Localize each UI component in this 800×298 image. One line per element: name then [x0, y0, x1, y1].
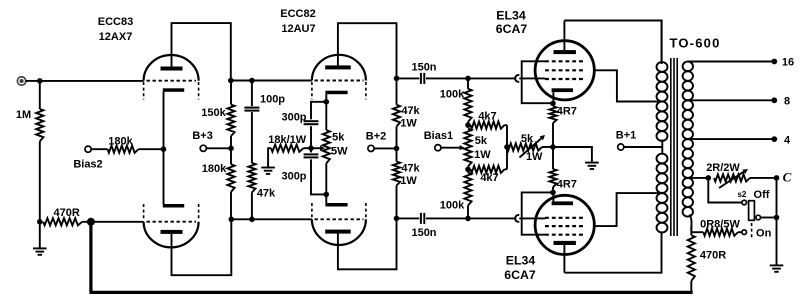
label 5k 5W: [331, 131, 348, 157]
transformer core: [671, 58, 677, 236]
wire g3 top tie: [522, 61, 553, 103]
wire C node down: [776, 178, 778, 266]
resistor 4R7 bottom: [549, 147, 556, 192]
wire B+1 to OPT CT: [624, 146, 663, 148]
terminal Bias1: [435, 145, 441, 151]
wire feedback run (thick): [90, 222, 693, 293]
resistor 5k/1W pot: [507, 143, 553, 150]
label 100k upper: [440, 89, 465, 101]
svg-text:5k: 5k: [521, 133, 534, 145]
node tap 4: [771, 136, 777, 142]
resistor 150k: [227, 81, 234, 149]
wire cathode ground: [553, 147, 592, 163]
tube ECC83 triode B envelope: [144, 222, 199, 248]
capacitor 150n upper: [397, 73, 469, 84]
svg-text:4R7: 4R7: [557, 105, 577, 117]
tube EL34 top plate lead: [563, 21, 565, 51]
label 470R feedback: [700, 249, 726, 261]
node 300p midpoint: [308, 145, 314, 151]
svg-text:8: 8: [784, 96, 790, 108]
svg-text:6CA7: 6CA7: [496, 22, 528, 36]
label 5k pot: [521, 133, 534, 145]
tube EL34 top g3: [545, 60, 584, 62]
label B+3: [192, 130, 213, 142]
label 18k/1W: [268, 134, 307, 146]
tube ECC83 triode B grid: [147, 221, 197, 223]
label 0R8/5W: [700, 218, 740, 230]
resistor 1M: [36, 81, 43, 222]
svg-text:180k: 180k: [202, 163, 227, 175]
resistor 47k/1W upper: [393, 78, 400, 148]
svg-text:B+3: B+3: [192, 130, 213, 142]
resistor 2R/2W: [714, 174, 777, 181]
node bias chain lower: [465, 167, 471, 173]
node damping tap: [706, 175, 712, 181]
wire 300p to cathode B: [311, 159, 326, 194]
wire g1 top with hop: [468, 75, 545, 82]
tube ECC82 triode A envelope: [312, 55, 366, 81]
svg-text:Bias1: Bias1: [424, 130, 453, 142]
resistor 470R feedback: [688, 235, 695, 291]
transformer primary lower: [657, 154, 668, 234]
tube ECC82 triode A plate: [325, 65, 351, 69]
resistor 180k bias2: [91, 146, 163, 153]
node tap 16: [771, 59, 777, 65]
node bias chain upper: [465, 122, 471, 128]
tube ECC82 triode B grid: [315, 218, 364, 220]
svg-text:0R8/5W: 0R8/5W: [700, 218, 740, 230]
terminal Bias2: [85, 146, 91, 152]
label On: [756, 227, 772, 239]
label 4k7 lower: [480, 172, 498, 184]
wire tap 8: [687, 99, 774, 101]
resistor 100k lower: [464, 169, 471, 218]
resistor 5k/1W chain: [464, 129, 471, 170]
wire to switch: [708, 178, 742, 203]
tube ECC82 triode A plate lead: [338, 23, 397, 78]
wire 4k7 bracket: [506, 125, 508, 169]
svg-text:EL34: EL34: [496, 9, 526, 23]
wire B+2: [374, 147, 396, 149]
wire plate rail top: [231, 80, 312, 82]
wire tap 16: [687, 61, 774, 63]
tube EL34 bottom g2: [545, 225, 584, 227]
tube EL34 top cathode lead: [552, 92, 554, 104]
svg-text:s2: s2: [737, 190, 746, 199]
tube EL34 bottom plate: [554, 241, 576, 245]
svg-text:100p: 100p: [260, 94, 285, 106]
tube ECC83 triode A grid: [147, 80, 197, 82]
ground input: [33, 222, 47, 255]
node cathode bottom junction: [550, 190, 556, 196]
resistor 180k anode: [227, 148, 234, 219]
switch s2 body: [749, 201, 755, 221]
label ECC82: [280, 8, 315, 20]
label 150n upper: [411, 61, 436, 73]
tube ECC83 triode B plate: [161, 230, 183, 234]
wire EL34 bottom g2 UL: [594, 193, 657, 226]
svg-text:100k: 100k: [440, 200, 465, 212]
label TO-600: [669, 36, 720, 51]
wire input to ECC83 grid: [26, 80, 144, 82]
tube ECC82 triode B side dashes: [312, 203, 366, 218]
label 4R7 bottom: [557, 178, 577, 190]
wire 300p junction upper: [310, 126, 312, 148]
tube EL34 bottom g1: [545, 217, 584, 219]
label 300p upper: [281, 112, 306, 124]
node input grid: [37, 78, 43, 84]
tube ECC83 triode A cathode: [163, 88, 184, 92]
resistor 4k7 lower: [471, 166, 508, 173]
tube EL34 top cathode: [552, 88, 573, 92]
svg-text:C: C: [783, 170, 792, 185]
wire ECC83 cathodes: [163, 92, 165, 204]
svg-text:On: On: [756, 227, 772, 239]
ground 18k: [261, 168, 275, 174]
wire switch to C node: [761, 217, 777, 219]
svg-text:18k/1W: 18k/1W: [268, 134, 307, 146]
node B+3 junction: [228, 146, 234, 152]
node 47k rail bottom: [394, 216, 400, 222]
resistor 100k upper: [464, 78, 471, 125]
tube EL34 bottom envelope: [535, 195, 594, 254]
svg-text:5k: 5k: [332, 131, 345, 143]
svg-text:4: 4: [784, 134, 791, 146]
node ECC82 cathode A: [324, 99, 330, 105]
tube ECC83 triode A side dashes: [144, 82, 199, 100]
resistor 0R8/5W: [691, 229, 738, 236]
arrow 2R pot: [719, 169, 748, 188]
transformer secondary: [683, 62, 693, 233]
label 150k: [201, 107, 226, 119]
label 4R7 top: [557, 105, 577, 117]
tube ECC83 triode A plate lead: [172, 23, 231, 80]
terminal B+3: [200, 145, 206, 151]
svg-text:150k: 150k: [201, 107, 226, 119]
tube EL34 bottom plate lead: [563, 245, 565, 273]
node cathode top junction: [550, 101, 556, 107]
tube ECC82 triode B plate: [325, 230, 351, 234]
svg-text:4k7: 4k7: [480, 172, 498, 184]
node feedback: [87, 218, 95, 226]
wire tap damping: [687, 177, 708, 179]
wire cathode A to caps: [311, 102, 326, 120]
label 8: [784, 96, 790, 108]
node secondary bottom: [690, 225, 692, 235]
node C terminal: [774, 175, 780, 181]
svg-text:12AU7: 12AU7: [281, 23, 315, 35]
label B+1: [616, 130, 637, 142]
svg-text:TO-600: TO-600: [669, 36, 720, 51]
svg-text:5W: 5W: [331, 145, 348, 157]
wiper arrow Bias1: [441, 145, 465, 150]
tube ECC83 triode A plate: [161, 67, 183, 71]
svg-text:1W: 1W: [400, 175, 417, 187]
wire plate rail bottom: [231, 218, 312, 220]
label 6CA7 bottom: [504, 268, 536, 282]
label 2R/2W: [706, 162, 740, 174]
label 5k/1W chain: [474, 135, 491, 161]
label 16: [782, 57, 794, 69]
label 300p lower: [281, 170, 306, 182]
wire feedback node to ECC83 grid: [82, 221, 144, 223]
svg-text:300p: 300p: [281, 170, 306, 182]
switch link dashes: [751, 223, 753, 240]
tube ECC82 triode A side dashes: [312, 82, 366, 100]
svg-text:5k: 5k: [475, 135, 488, 147]
label 47k ecc83: [257, 187, 276, 199]
label 150n lower: [411, 227, 436, 239]
node 4k7 midpoint: [504, 144, 510, 150]
capacitor 300p upper: [304, 121, 319, 124]
switch s2 throw off: [756, 215, 761, 220]
wire EL34 top plate to OPT: [564, 21, 661, 61]
label 100p: [260, 94, 285, 106]
node ECC82 cathode B: [324, 192, 330, 198]
label 4k7 upper: [478, 111, 496, 123]
svg-text:47k: 47k: [401, 105, 420, 117]
tube EL34 top g2: [545, 69, 584, 71]
tube ECC83 triode B cathode: [163, 204, 184, 208]
label EL34 top: [496, 9, 526, 23]
node 100p top: [249, 78, 255, 84]
input jack J1: [17, 77, 25, 85]
resistor 4R7 top: [549, 106, 556, 147]
svg-text:ECC83: ECC83: [98, 16, 133, 28]
label EL34 bottom: [506, 254, 536, 268]
wire B+3: [206, 147, 231, 149]
resistor 47k/1W lower: [393, 148, 400, 218]
svg-text:ECC82: ECC82: [280, 8, 315, 20]
terminal B+2: [368, 145, 374, 151]
tube ECC83 triode B plate lead: [172, 219, 232, 275]
transformer primary upper: [657, 21, 668, 154]
svg-text:1W: 1W: [526, 151, 543, 163]
svg-text:16: 16: [782, 57, 794, 69]
capacitor 300p lower: [304, 148, 319, 157]
capacitor 150n lower: [397, 213, 469, 224]
node ECC83 plate rail: [228, 78, 234, 84]
tube ECC83 triode B side dashes: [144, 204, 199, 220]
svg-text:150n: 150n: [411, 61, 436, 73]
tube EL34 bottom g3: [545, 234, 584, 236]
label 100k lower: [440, 200, 465, 212]
label ECC83: [98, 16, 133, 28]
svg-text:EL34: EL34: [506, 254, 536, 268]
svg-text:2R/2W: 2R/2W: [706, 162, 740, 174]
label 47k/1W lower: [400, 163, 420, 188]
resistor 470R feedback-leg: [43, 218, 82, 225]
node 180k bottom: [229, 217, 235, 223]
svg-text:100k: 100k: [440, 89, 465, 101]
svg-text:B+1: B+1: [616, 130, 637, 142]
tube ECC83 triode A envelope: [144, 55, 199, 81]
svg-text:1W: 1W: [400, 118, 417, 130]
node 4R7 junction: [550, 144, 556, 150]
svg-text:47k: 47k: [401, 163, 420, 175]
label Bias1: [424, 130, 453, 142]
svg-text:150n: 150n: [411, 227, 436, 239]
label Off: [754, 189, 770, 201]
wire EL34 top g2 UL: [594, 70, 657, 101]
svg-text:12AX7: 12AX7: [99, 31, 133, 43]
label 47k/1W upper: [400, 105, 420, 130]
tube EL34 top plate: [554, 50, 576, 54]
wire UL tap upper: [657, 101, 662, 103]
resistor 18k/1W: [268, 145, 311, 168]
label 6CA7 top: [496, 22, 528, 36]
wire tap 4: [687, 138, 774, 140]
tube ECC82 triode A cathode lead: [325, 94, 327, 102]
svg-text:4R7: 4R7: [557, 178, 577, 190]
svg-text:Bias2: Bias2: [73, 159, 102, 171]
label 12AX7: [99, 31, 133, 43]
svg-text:470R: 470R: [54, 207, 80, 219]
label 1W pot: [526, 151, 543, 163]
tube ECC82 triode B cathode: [325, 203, 347, 207]
ground EL34 cathodes: [585, 163, 599, 169]
label 470R: [54, 207, 80, 219]
node g1 rail upper: [465, 76, 471, 82]
node C ground branch: [774, 215, 780, 221]
label 12AU7: [281, 23, 315, 35]
svg-text:Off: Off: [754, 189, 770, 201]
arrow 5k pot: [520, 135, 546, 158]
svg-text:300p: 300p: [281, 112, 306, 124]
label 180k anode: [202, 163, 227, 175]
node tap 8: [771, 97, 777, 103]
resistor 47k ecc83: [248, 163, 255, 219]
tube ECC82 triode B plate lead: [338, 218, 397, 269]
ground output: [770, 265, 784, 271]
svg-text:470R: 470R: [700, 249, 726, 261]
svg-text:1M: 1M: [16, 109, 31, 121]
wiper arrow 5k5W: [311, 146, 325, 151]
switch s2 throw on: [742, 230, 747, 235]
tube EL34 bottom cathode: [552, 201, 573, 205]
node 1M bottom: [37, 219, 43, 225]
tube ECC82 triode B envelope: [312, 219, 366, 245]
node B+2 junction: [394, 146, 400, 152]
svg-text:1W: 1W: [474, 149, 491, 161]
tube EL34 bottom cathode lead: [552, 192, 554, 201]
switch s2 pole: [742, 200, 747, 205]
tube EL34 top envelope: [535, 41, 594, 100]
label B+2: [366, 130, 387, 142]
label C: [783, 170, 792, 185]
capacitor 100p: [244, 81, 259, 164]
node 47k bottom: [249, 217, 255, 223]
node 47k rail top: [394, 76, 400, 82]
resistor 4k7 upper: [471, 122, 508, 129]
svg-text:47k: 47k: [257, 187, 276, 199]
wire EL34 bottom plate to OPT: [564, 233, 661, 273]
svg-text:180k: 180k: [108, 136, 133, 148]
terminal B+1: [618, 144, 624, 150]
node g1 rail lower: [465, 216, 471, 222]
node ECC83 cathode / 180k: [161, 146, 167, 152]
label Bias2: [73, 159, 102, 171]
tube ECC82 triode A cathode: [325, 91, 347, 95]
label 1M: [16, 109, 31, 121]
tube ECC82 triode B cathode lead: [325, 194, 327, 203]
svg-text:B+2: B+2: [366, 130, 387, 142]
wire UL tap lower: [657, 192, 662, 194]
wire g1 bottom with hop: [468, 215, 545, 222]
wire 0R8 to contact: [738, 231, 742, 233]
wire g3 bottom tie: [522, 192, 553, 234]
label 4: [784, 134, 791, 146]
tube EL34 top g1: [545, 78, 584, 80]
label s2: [737, 190, 746, 199]
svg-text:6CA7: 6CA7: [504, 268, 536, 282]
label 180k bias2: [108, 136, 133, 148]
tube ECC82 triode A grid: [315, 80, 364, 82]
svg-text:4k7: 4k7: [478, 111, 496, 123]
resistor 5k 5W: [323, 102, 330, 195]
